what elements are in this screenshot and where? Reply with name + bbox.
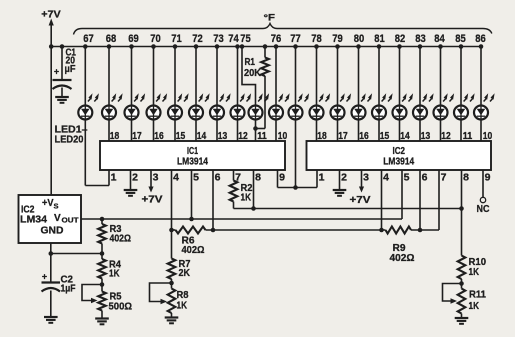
IC2 pin 8 number (463, 172, 469, 184)
IC2 pin 18 number (317, 130, 327, 142)
resistor R10 1K (458, 256, 466, 286)
IC1 pin 12 number (238, 130, 248, 142)
IC2 LM3914 (box) (307, 141, 492, 170)
svg-text:85: 85 (455, 33, 466, 45)
wire IC2 pin8 down to R10 (459, 170, 464, 256)
svg-text:+: + (42, 272, 47, 282)
LED18 (column 84 F) (434, 44, 455, 141)
svg-text:6: 6 (422, 172, 428, 184)
svg-text:20K: 20K (244, 67, 261, 79)
svg-text:OUT: OUT (62, 216, 79, 225)
LED6 (column 72 F) (189, 44, 210, 141)
IC2 LM34 temperature sensor (box) (19, 195, 82, 243)
svg-text:10: 10 (483, 130, 493, 142)
svg-text:75: 75 (240, 33, 251, 45)
IC1 pin 6 number (215, 172, 221, 184)
scale label 72 F (192, 33, 203, 45)
capacitor C1 (20uF) with polarity + (53, 44, 72, 97)
svg-text:70: 70 (150, 33, 161, 45)
resistor R1 20K (V+ to IC1 pin 11) (253, 44, 269, 131)
ground (IC2 pin 2) (333, 170, 347, 196)
svg-text:1K: 1K (109, 268, 120, 280)
LED16 (column 82 F) (393, 44, 414, 141)
svg-text:74: 74 (228, 33, 239, 45)
svg-text:+7V: +7V (41, 9, 61, 21)
IC1 pin 3 number (153, 172, 159, 184)
LED20 (column 86 F) (474, 44, 495, 141)
IC1 pin 18 number (110, 130, 120, 142)
IC2 pin 10 number (483, 130, 493, 142)
label C2 value (61, 274, 76, 295)
IC2 pin 12 number (441, 130, 451, 142)
svg-text:18: 18 (317, 130, 327, 142)
scale label 71 F (171, 33, 182, 45)
scale label 86 F (475, 33, 486, 45)
IC1 pin 14 number (197, 130, 207, 142)
IC2 pin 9 number (485, 172, 491, 184)
ground (R11) (455, 318, 469, 324)
IC1 pin 13 number (218, 130, 228, 142)
svg-text:V: V (54, 213, 61, 224)
IC1 pin 17 number (132, 130, 142, 142)
wire IC1 pin8 down to ref bus (251, 170, 256, 211)
IC1 pin 11 number (257, 130, 267, 142)
wire IC2 pin5 down to signal bus (401, 170, 403, 219)
scale label 76 F (271, 33, 282, 45)
wire signal bus (LM34 Vout to pin5 IC1/IC2) (81, 217, 402, 222)
svg-text:1K: 1K (469, 300, 480, 312)
wire IC2 pin4 down to RLO bus (381, 170, 383, 230)
svg-text:6: 6 (215, 172, 221, 184)
label C1 value (65, 47, 77, 76)
label R3 value (110, 223, 132, 245)
svg-text:84: 84 (434, 33, 445, 45)
wire IC2 pin7 down to RLO bus (438, 170, 440, 230)
resistor R6 402ohm (horizontal) (176, 227, 206, 234)
IC1 pin 8 number (255, 172, 261, 184)
svg-text:72: 72 (192, 33, 203, 45)
IC2 pin 7 number (441, 172, 447, 184)
svg-text:82: 82 (395, 33, 406, 45)
wire reference bus (R2/pin8 to R10) (234, 208, 462, 210)
svg-text:67: 67 (83, 33, 94, 45)
svg-text:R11: R11 (469, 289, 486, 301)
svg-text:1K: 1K (177, 300, 188, 312)
IC2 pin 15 number (380, 130, 390, 142)
svg-text:1K: 1K (469, 266, 480, 278)
LED3 (column 69 F) (125, 44, 146, 141)
junction +7V at rail (49, 44, 54, 49)
svg-text:68: 68 (106, 33, 117, 45)
svg-text:73: 73 (213, 33, 224, 45)
scale label 85 F (455, 33, 466, 45)
svg-text:9: 9 (485, 172, 491, 184)
scale label 77 F (290, 33, 301, 45)
scale label 75 F (240, 33, 251, 45)
svg-text:9: 9 (279, 172, 285, 184)
svg-text:13: 13 (421, 130, 431, 142)
svg-text:3: 3 (153, 172, 159, 184)
brace for temperature scale (74, 24, 492, 35)
label &#176;F (264, 13, 276, 24)
ground (C2) (44, 317, 58, 323)
scale label 83 F (415, 33, 426, 45)
resistor R9 402ohm (horizontal) (386, 227, 412, 234)
LED7 (column 73 F) (210, 44, 231, 141)
svg-text:10: 10 (278, 130, 288, 142)
trimmer R11 1K (458, 284, 466, 319)
svg-text:500Ω: 500Ω (109, 301, 133, 313)
IC2 pin 16 number (359, 130, 369, 142)
svg-text:5: 5 (404, 172, 410, 184)
IC2 pin 6 number (422, 172, 428, 184)
scale label 67 F (83, 33, 94, 45)
IC1 pin 9 number (279, 172, 285, 184)
svg-text:1: 1 (111, 172, 117, 184)
ground (R5) (95, 319, 109, 325)
resistor R7 2K (168, 230, 176, 285)
svg-text:2: 2 (341, 172, 347, 184)
svg-text:81: 81 (374, 33, 385, 45)
LED12 (column 78 F) (310, 44, 331, 141)
LED15 (column 81 F) (372, 44, 393, 141)
scale label 69 F (128, 33, 139, 45)
svg-text:LED20: LED20 (55, 134, 84, 146)
LED14 (column 80 F) (352, 44, 373, 141)
+7V arrow at IC1 pin 3 (142, 170, 163, 206)
wire +7V vertical down to LM34 +Vs (50, 47, 52, 196)
label R10 value (469, 256, 487, 278)
resistor R3 402ohm (98, 219, 106, 256)
label LED1-LED20 (55, 124, 88, 146)
IC1 pin 15 number (176, 130, 186, 142)
svg-text:µF: µF (65, 63, 77, 75)
svg-text:7: 7 (441, 172, 447, 184)
svg-text:+7V: +7V (142, 194, 163, 206)
svg-text:402Ω: 402Ω (390, 252, 415, 264)
trimmer R8 1K (168, 283, 176, 318)
scale label 74 F (228, 33, 239, 45)
svg-text:IC2: IC2 (393, 146, 406, 157)
label R9 value (390, 242, 415, 264)
svg-text:8: 8 (463, 172, 469, 184)
svg-text:12: 12 (238, 130, 248, 142)
scale label 73 F (213, 33, 224, 45)
svg-text:18: 18 (110, 130, 120, 142)
LED2 (column 68 F) (102, 44, 123, 141)
wiper wire R5 (82, 285, 102, 304)
svg-text:16: 16 (359, 130, 369, 142)
IC2 pin 3 number (363, 172, 369, 184)
label R2 value (241, 182, 253, 204)
LED10 (column 76 F) (269, 44, 290, 141)
wire LM34 GND to R3/R4 junction (51, 253, 102, 255)
+7V supply (top left) (41, 9, 61, 47)
IC1 pin 1 number (111, 172, 117, 184)
scale label 78 F (311, 33, 322, 45)
LED9 (column 75 F) (240, 44, 269, 141)
LED17 (column 83 F) (413, 44, 434, 141)
svg-text:°F: °F (264, 13, 276, 24)
resistor R4 1K (98, 254, 106, 287)
scale label 68 F (106, 33, 117, 45)
wiper wire R11 (443, 284, 462, 304)
svg-text:4: 4 (173, 172, 179, 184)
svg-text:86: 86 (475, 33, 486, 45)
svg-text:16: 16 (154, 130, 164, 142)
svg-text:4: 4 (383, 172, 389, 184)
trimmer R5 500ohm (98, 285, 106, 319)
NC stub at IC2 pin 9 (477, 170, 490, 215)
svg-text:LM34: LM34 (20, 214, 47, 226)
ground (C1) (55, 97, 69, 103)
label R11 value (469, 289, 487, 313)
svg-text:12: 12 (441, 130, 451, 142)
IC2 pin 17 number (338, 130, 348, 142)
svg-text:71: 71 (171, 33, 182, 45)
wire +7V rail (top horizontal bus) (51, 46, 481, 48)
svg-text:79: 79 (332, 33, 343, 45)
label R4 value (109, 259, 121, 280)
label R8 value (177, 289, 189, 312)
IC1 pin 2 number (132, 172, 138, 184)
wire IC1 pin5 down to signal bus (191, 170, 193, 219)
svg-text:83: 83 (415, 33, 426, 45)
svg-text:+V: +V (42, 198, 54, 209)
scale label 82 F (395, 33, 406, 45)
IC2 pin 1 number (319, 172, 325, 184)
svg-text:3: 3 (363, 172, 369, 184)
IC1 pin 10 number (278, 130, 288, 142)
wire LM34 GND down (49, 243, 54, 282)
svg-text:17: 17 (338, 130, 348, 142)
svg-text:NC: NC (477, 203, 490, 215)
svg-text:11: 11 (257, 130, 267, 142)
resistor R2 1K (IC1 pin7) (230, 170, 238, 209)
svg-text:5: 5 (193, 172, 199, 184)
IC2 pin 2 number (341, 172, 347, 184)
svg-text:15: 15 (176, 130, 186, 142)
LED5 (column 71 F) (168, 44, 189, 141)
IC2 pin 13 number (421, 130, 431, 142)
svg-text:80: 80 (354, 33, 365, 45)
ground (R8) (165, 318, 179, 324)
LED8 (column 74 F) (231, 44, 252, 141)
svg-text:14: 14 (197, 130, 207, 142)
wire IC1 pin6 down to RLO bus (212, 170, 214, 230)
LED19 (column 85 F) (454, 44, 475, 141)
svg-text:13: 13 (218, 130, 228, 142)
svg-text:GND: GND (41, 226, 64, 237)
svg-text:76: 76 (271, 33, 282, 45)
scale label 84 F (434, 33, 445, 45)
svg-text:1: 1 (319, 172, 325, 184)
svg-text:LM3914: LM3914 (383, 157, 414, 168)
LED4 (column 70 F) (147, 44, 168, 141)
svg-text:15: 15 (380, 130, 390, 142)
label R6 value (182, 235, 205, 257)
IC1 pin 7 number (235, 172, 241, 184)
wire IC1 pin1 to LED1 cathode (85, 170, 109, 186)
svg-text:69: 69 (128, 33, 139, 45)
scale label 81 F (374, 33, 385, 45)
scale label 70 F (150, 33, 161, 45)
wiper wire R8 (150, 283, 172, 304)
wire IC1 pin9 to IC2 pin1 (cascade) (278, 170, 318, 190)
svg-text:LM3914: LM3914 (177, 157, 208, 168)
svg-text:11: 11 (463, 130, 473, 142)
label R7 value (179, 258, 191, 279)
svg-text:IC1: IC1 (187, 146, 198, 157)
scale label 79 F (332, 33, 343, 45)
svg-text:77: 77 (290, 33, 301, 45)
IC1 LM3914 (box) (100, 141, 285, 170)
IC1 pin 4 number (173, 172, 179, 184)
svg-text:S: S (54, 202, 59, 211)
scale label 80 F (354, 33, 365, 45)
IC2 pin 11 number (463, 130, 473, 142)
svg-text:8: 8 (255, 172, 261, 184)
svg-text:2K: 2K (179, 267, 191, 279)
svg-text:402Ω: 402Ω (182, 244, 205, 256)
svg-text:14: 14 (400, 130, 410, 142)
IC2 pin 14 number (400, 130, 410, 142)
IC2 pin 4 number (383, 172, 389, 184)
svg-text:402Ω: 402Ω (110, 233, 132, 245)
IC2 pin 5 number (404, 172, 410, 184)
+7V arrow at IC2 pin 3 (350, 170, 371, 206)
svg-text:1µF: 1µF (61, 283, 76, 295)
wire RLO bus (pin4 IC1 to pin7 IC2) (169, 228, 439, 233)
svg-text:+7V: +7V (350, 194, 371, 206)
LED11 (column 77 F) (289, 44, 310, 187)
wire IC2 pin6 down to RLO bus (419, 170, 421, 230)
ground (IC1 pin 2) (124, 170, 138, 196)
label R1 value (244, 56, 261, 79)
svg-text:+: + (54, 67, 59, 77)
capacitor C2 (1uF) with polarity + (42, 272, 61, 318)
LED13 (column 79 F) (331, 44, 352, 141)
svg-text:1K: 1K (241, 192, 252, 204)
svg-text:17: 17 (132, 130, 142, 142)
svg-text:78: 78 (311, 33, 322, 45)
IC1 pin 5 number (193, 172, 199, 184)
label R5 value (109, 291, 133, 313)
LED1 (column 67 F) (78, 44, 99, 185)
IC1 pin 16 number (154, 130, 164, 142)
wire IC1 pin4 down to RLO bus (171, 170, 173, 230)
svg-text:2: 2 (132, 172, 138, 184)
